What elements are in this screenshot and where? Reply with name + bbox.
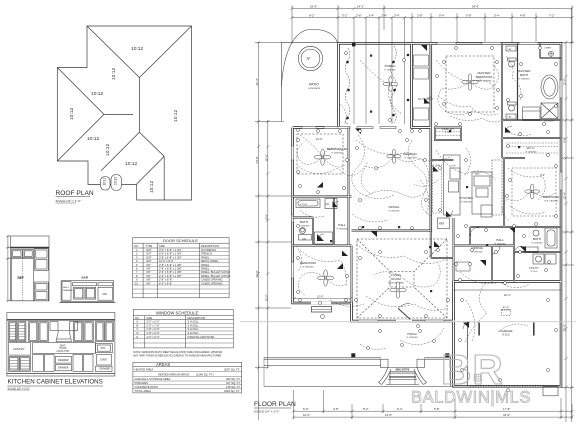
roof valley to porch corner — [101, 132, 139, 170]
svg-text:TOTAL AREA: TOTAL AREA — [135, 389, 151, 393]
svg-text:20'-4": 20'-4" — [563, 324, 567, 331]
svg-text:5'-8": 5'-8" — [466, 14, 472, 18]
kitchen upper cabinets dashed — [433, 165, 442, 213]
svg-text:DRAWER: DRAWER — [58, 366, 69, 369]
svg-text:7'-2": 7'-2" — [549, 14, 555, 18]
svg-text:CONCRETE PATIO: CONCRETE PATIO — [135, 385, 159, 389]
svg-text:10:12: 10:12 — [103, 177, 107, 185]
svg-text:4'-8": 4'-8" — [520, 14, 526, 18]
interior walls — [293, 43, 561, 303]
svg-text:5'-2": 5'-2" — [363, 407, 369, 411]
svg-text:BEDROOM: BEDROOM — [543, 195, 559, 199]
svg-text:2'-4" x 6'-8" x 1 3/8": 2'-4" x 6'-8" x 1 3/8" — [159, 274, 182, 278]
svg-text:KITCHEN CABINET ELEVATIONS: KITCHEN CABINET ELEVATIONS — [8, 379, 103, 386]
svg-text:34'-0": 34'-0" — [472, 5, 479, 9]
svg-text:10:12: 10:12 — [125, 161, 138, 167]
svg-text:2'-8" x 6'-8" x 1 3/4": 2'-8" x 6'-8" x 1 3/4" — [159, 255, 182, 259]
svg-text:HALL: HALL — [496, 238, 504, 242]
svg-text:SIZE: SIZE — [147, 316, 153, 320]
svg-text:GRILL: GRILL — [63, 287, 70, 289]
svg-text:EXT: EXT — [147, 255, 152, 259]
svg-text:FLOOR PLAN: FLOOR PLAN — [254, 401, 296, 408]
svg-text:GARAGE & STORAGE AREA: GARAGE & STORAGE AREA — [135, 377, 171, 381]
svg-text:3'-4": 3'-4" — [394, 14, 400, 18]
svg-text:DESCRIPTION: DESCRIPTION — [201, 244, 219, 248]
garage rear pad — [543, 386, 558, 396]
left pantry column — [9, 343, 31, 356]
svg-text:8'-6": 8'-6" — [264, 214, 268, 220]
svg-text:10:12: 10:12 — [87, 136, 100, 142]
svg-text:2'-8": 2'-8" — [356, 14, 362, 18]
ceiling fan symbols — [314, 74, 539, 298]
garage inner header line — [454, 289, 562, 291]
patio — [282, 29, 339, 121]
svg-text:2'-8" x 6'-0": 2'-8" x 6'-0" — [147, 327, 160, 331]
svg-text:DINING: DINING — [389, 205, 400, 209]
svg-text:REF: REF — [18, 276, 24, 280]
svg-text:TYPE: TYPE — [146, 244, 153, 248]
side stoop strip right of porch — [451, 321, 468, 386]
svg-text:10:12: 10:12 — [131, 46, 144, 52]
svg-text:10:12: 10:12 — [173, 109, 179, 122]
svg-text:NO.: NO. — [134, 244, 139, 248]
svg-text:9' CEILING: 9' CEILING — [472, 251, 483, 253]
svg-text:SHOWER: SHOWER — [544, 121, 554, 123]
svg-text:2'-6" x 6'-8" x 1 3/8": 2'-6" x 6'-8" x 1 3/8" — [159, 267, 182, 271]
svg-text:12'-4": 12'-4" — [563, 192, 567, 199]
svg-text:AREAS: AREAS — [156, 362, 170, 367]
dimension text inside plan — [293, 98, 545, 300]
bottom porch and steps — [264, 358, 454, 387]
svg-text:BRK STEPS: BRK STEPS — [396, 368, 410, 371]
svg-text:BR: BR — [441, 346, 504, 393]
svg-text:DRAWER: DRAWER — [100, 368, 111, 371]
svg-text:9' CEILING: 9' CEILING — [461, 201, 472, 203]
svg-text:26'-4": 26'-4" — [255, 78, 259, 85]
svg-text:TRAY CEILING: TRAY CEILING — [477, 79, 492, 82]
extra wiring squiggles — [296, 64, 555, 349]
svg-text:2'-8" x 6'-8" x 1 3/8": 2'-8" x 6'-8" x 1 3/8" — [159, 263, 182, 267]
svg-text:3'-2": 3'-2" — [342, 14, 348, 18]
windows (slots in walls) — [292, 42, 562, 322]
svg-text:WINDOW SCHEDULE: WINDOW SCHEDULE — [156, 310, 199, 315]
svg-text:2'-8" x 5'-0": 2'-8" x 5'-0" — [147, 331, 160, 335]
svg-text:HALL: HALL — [338, 223, 346, 227]
svg-text:14'-0": 14'-0" — [385, 413, 392, 417]
master bath fixtures — [506, 43, 561, 120]
roof hip right of main block — [139, 26, 191, 78]
svg-text:OVEN: OVEN — [100, 359, 107, 362]
svg-text:SCALE 1/4" = 1'-0": SCALE 1/4" = 1'-0" — [254, 410, 279, 414]
svg-text:7F: 7F — [306, 56, 311, 61]
svg-text:S.H./SILL: S.H./SILL — [188, 323, 200, 327]
svg-text:ACCESS: ACCESS — [502, 308, 512, 311]
svg-text:9' CEILING: 9' CEILING — [389, 210, 400, 212]
svg-text:17'-8": 17'-8" — [503, 407, 510, 411]
svg-text:5'-4": 5'-4" — [439, 14, 445, 18]
svg-text:9' CEILING: 9' CEILING — [532, 242, 543, 244]
svg-text:CONCRETE: CONCRETE — [308, 88, 321, 90]
svg-text:22'-0": 22'-0" — [255, 270, 259, 277]
svg-text:9'-2": 9'-2" — [309, 14, 315, 18]
svg-text:BEDROOM: BEDROOM — [300, 261, 316, 265]
center band — [33, 343, 96, 354]
svg-text:427 SQ. FT.: 427 SQ. FT. — [226, 381, 241, 385]
svg-text:9' CLG: 9' CLG — [531, 271, 538, 273]
svg-text:LAV: LAV — [508, 116, 513, 119]
svg-text:DRAWER: DRAWER — [63, 289, 73, 292]
svg-text:2'-6" x 6'-8" x 1 3/8": 2'-6" x 6'-8" x 1 3/8" — [159, 270, 182, 274]
svg-text:4'-0" x 6'-0": 4'-0" x 6'-0" — [147, 335, 160, 339]
svg-text:PATIO: PATIO — [309, 83, 319, 87]
svg-text:16'-0": 16'-0" — [310, 5, 317, 9]
svg-text:10:12: 10:12 — [69, 107, 75, 120]
svg-text:REF: REF — [439, 222, 445, 226]
svg-text:6'-0" x 6'-8" x 1 3/4": 6'-0" x 6'-8" x 1 3/4" — [159, 252, 182, 256]
svg-text:9' CEILING: 9' CEILING — [303, 266, 314, 268]
svg-text:3/4 FRENCH: 3/4 FRENCH — [201, 248, 216, 252]
svg-text:3'-0" x 6'-8" x 1 3/4": 3'-0" x 6'-8" x 1 3/4" — [159, 248, 182, 252]
outlet/switch symbols — [297, 47, 558, 382]
svg-text:A: A — [137, 320, 139, 324]
utility fixtures — [533, 254, 556, 264]
svg-text:DESCRIPTION: DESCRIPTION — [188, 316, 206, 320]
exterior walls (double-line effect) — [293, 43, 561, 386]
svg-text:EXT: EXT — [147, 259, 152, 263]
tray ceilings dashed — [297, 56, 494, 318]
svg-text:9' CLG: 9' CLG — [502, 334, 510, 337]
attic access dashed — [502, 310, 511, 316]
svg-text:SCALE 1/4" = 1'-0": SCALE 1/4" = 1'-0" — [56, 199, 81, 203]
svg-text:4'-8": 4'-8" — [333, 407, 339, 411]
svg-text:BEDROOM: BEDROOM — [476, 75, 492, 79]
svg-text:HEATED AREA W/ BRICK: HEATED AREA W/ BRICK — [158, 372, 190, 376]
svg-text:24'-8": 24'-8" — [255, 156, 259, 163]
svg-text:3'-4": 3'-4" — [540, 174, 545, 177]
svg-text:3'-4": 3'-4" — [382, 14, 388, 18]
svg-text:INT: INT — [147, 263, 152, 267]
svg-text:METAL PANEL: METAL PANEL — [201, 259, 219, 263]
svg-text:FRENCH: FRENCH — [201, 252, 212, 256]
svg-text:2'-0" x 7'-0": 2'-0" x 7'-0" — [147, 323, 160, 327]
svg-text:484 SQ. FT.: 484 SQ. FT. — [226, 377, 241, 381]
svg-text:ROOF PLAN: ROOF PLAN — [56, 190, 94, 197]
svg-text:S.H./SILL: S.H./SILL — [188, 327, 200, 331]
svg-text:BATH: BATH — [300, 220, 308, 224]
svg-text:PORCHES: PORCHES — [135, 381, 148, 385]
svg-text:DW: DW — [103, 292, 108, 296]
svg-text:INT: INT — [147, 281, 152, 285]
right dimension lines — [561, 9, 574, 423]
svg-text:3418 SQ. FT.: 3418 SQ. FT. — [224, 389, 240, 393]
upper row doors — [9, 322, 17, 342]
roof porch bumps — [101, 175, 122, 191]
roof bay diagonal — [137, 156, 165, 184]
svg-text:9' CEILING: 9' CEILING — [495, 243, 506, 245]
garage center ticks — [479, 323, 534, 336]
watermark BALDWIN|MLS — [411, 389, 531, 407]
svg-text:INT: INT — [147, 274, 152, 278]
svg-text:HEATED AREA: HEATED AREA — [135, 367, 154, 371]
svg-text:10:12: 10:12 — [91, 91, 104, 97]
svg-text:5'-0": 5'-0" — [303, 407, 309, 411]
window note — [133, 351, 222, 357]
wiring squiggles (dashed arcs) — [298, 56, 546, 342]
svg-text:B: B — [137, 323, 139, 327]
svg-text:DRAWER: DRAWER — [58, 359, 69, 362]
bedroom3 tray dashes — [512, 168, 556, 216]
svg-text:NO.: NO. — [135, 316, 140, 320]
svg-text:6'-4": 6'-4" — [397, 407, 403, 411]
svg-text:22'-4": 22'-4" — [504, 294, 510, 297]
svg-text:13'-0": 13'-0" — [563, 78, 567, 85]
svg-text:BALDWIN|MLS: BALDWIN|MLS — [411, 389, 531, 407]
svg-text:9' CEILING: 9' CEILING — [332, 152, 343, 154]
svg-text:9' CEILING: 9' CEILING — [385, 69, 396, 71]
left wing hip top — [57, 68, 104, 115]
door swing triangles — [317, 45, 526, 328]
kitchen counters — [444, 155, 503, 217]
svg-text:CASED OPENING: CASED OPENING — [201, 281, 223, 285]
bedroom4 bay window — [312, 307, 332, 313]
svg-text:15'-0": 15'-0" — [264, 154, 268, 161]
svg-text:DOOR SCHEDULE: DOOR SCHEDULE — [163, 238, 198, 243]
svg-text:9' CLG: 9' CLG — [445, 132, 452, 134]
front door swing — [398, 303, 410, 319]
svg-text:9' CEILING: 9' CEILING — [337, 228, 348, 230]
svg-text:PANEL: PANEL — [201, 263, 210, 267]
svg-text:LAV: LAV — [508, 48, 513, 51]
hall closet cell — [315, 232, 333, 244]
svg-text:C: C — [137, 327, 139, 331]
svg-text:S.H./SILL: S.H./SILL — [188, 331, 200, 335]
scan artifact gray line — [240, 321, 576, 323]
svg-text:S.H./SILL: S.H./SILL — [188, 320, 200, 324]
svg-text:PORCH: PORCH — [385, 64, 396, 68]
svg-text:2'-8" x 6'-8": 2'-8" x 6'-8" — [159, 278, 172, 282]
svg-text:LAV: LAV — [325, 203, 330, 206]
svg-text:LINEN: LINEN — [545, 48, 552, 50]
svg-text:PANEL, BULLET CATCH: PANEL, BULLET CATCH — [201, 274, 230, 278]
roof plan title — [56, 190, 94, 203]
svg-text:14'-2": 14'-2" — [357, 5, 364, 9]
garage door dotted — [470, 385, 558, 387]
kitchen REF box — [438, 218, 450, 229]
svg-text:SINK: SINK — [475, 174, 481, 176]
svg-text:2097 SQ. FT.: 2097 SQ. FT. — [224, 367, 240, 371]
svg-text:PANTRY: PANTRY — [442, 127, 454, 131]
roof outline — [57, 26, 191, 200]
svg-text:ROOM: ROOM — [391, 277, 401, 281]
svg-text:6'-0" x 6'-8": 6'-0" x 6'-8" — [159, 281, 172, 285]
master bedroom niche boxes — [414, 55, 429, 120]
svg-text:5'-8": 5'-8" — [434, 407, 440, 411]
svg-text:W/S: W/S — [101, 347, 106, 350]
office desk — [456, 262, 470, 271]
svg-text:218 SQ. FT.: 218 SQ. FT. — [226, 385, 241, 389]
roof hip left of main block — [87, 26, 139, 78]
svg-text:10:12: 10:12 — [111, 67, 117, 80]
svg-text:13'-2": 13'-2" — [264, 294, 268, 301]
striped glass doors left column — [10, 326, 30, 369]
svg-text:6'-4": 6'-4" — [563, 137, 567, 143]
roof bay vertical — [163, 156, 165, 200]
left wing hip bottom — [57, 114, 104, 161]
svg-text:D: D — [137, 331, 139, 335]
svg-text:10:12: 10:12 — [149, 180, 155, 193]
svg-text:6' TUB: 6' TUB — [300, 204, 307, 206]
svg-text:16'-0" x 8'-0": 16'-0" x 8'-0" — [159, 259, 174, 263]
svg-text:UTILITY: UTILITY — [529, 266, 539, 270]
watermark BR logo — [441, 346, 504, 393]
svg-text:BATH: BATH — [533, 237, 541, 241]
svg-text:LIN: LIN — [318, 237, 322, 239]
svg-text:COOK TOP: COOK TOP — [57, 350, 70, 353]
svg-text:EXT: EXT — [147, 252, 152, 256]
svg-text:FIXED/SILL/FROSTED: FIXED/SILL/FROSTED — [188, 335, 215, 339]
svg-text:10:12: 10:12 — [114, 177, 118, 185]
svg-text:(2148 SQ. FT.): (2148 SQ. FT.) — [196, 372, 214, 376]
svg-text:PANTRY: PANTRY — [14, 347, 25, 351]
bath 3 fixtures — [524, 228, 557, 252]
svg-text:INT: INT — [147, 270, 152, 274]
recessed light squares — [330, 55, 520, 293]
svg-text:PANEL: PANEL — [201, 267, 210, 271]
brick front steps — [379, 359, 427, 384]
roof ridge vertical — [138, 78, 140, 133]
svg-text:12'-0": 12'-0" — [316, 138, 322, 141]
bath 1 fixtures (left bath) — [296, 199, 337, 241]
svg-text:PANEL, BULLET CATCH: PANEL, BULLET CATCH — [201, 270, 230, 274]
lower cabinets — [33, 355, 44, 372]
hall door swing arcs — [317, 97, 522, 329]
left dimension lines — [255, 41, 291, 420]
svg-text:BATH: BATH — [520, 73, 528, 77]
svg-text:E: E — [137, 335, 139, 339]
wic shelves dashed — [506, 143, 558, 153]
svg-text:BAR: BAR — [82, 276, 89, 280]
svg-text:5'-4": 5'-4" — [494, 14, 500, 18]
svg-text:MAY VARY FROM SCHEDULE ACCORDI: MAY VARY FROM SCHEDULE ACCORDING TO WIND… — [133, 354, 222, 357]
right column — [96, 344, 113, 353]
svg-text:LAV: LAV — [302, 238, 307, 241]
top dimension lines — [291, 5, 574, 44]
svg-text:3'-4": 3'-4" — [369, 14, 375, 18]
svg-text:9' CEILING: 9' CEILING — [519, 78, 530, 80]
svg-text:9' CEILING: 9' CEILING — [299, 225, 310, 227]
svg-text:2'-8": 2'-8" — [417, 14, 423, 18]
svg-text:KITCHEN: KITCHEN — [459, 196, 473, 200]
svg-text:EXT: EXT — [147, 248, 152, 252]
bottom dimension lines — [292, 390, 574, 419]
svg-text:10:12: 10:12 — [105, 143, 111, 156]
svg-text:10'-0": 10'-0" — [303, 413, 310, 417]
svg-text:SCALE 1/2" = 1'-0": SCALE 1/2" = 1'-0" — [8, 387, 30, 391]
svg-text:INT: INT — [147, 278, 152, 282]
svg-text:12'-0": 12'-0" — [317, 296, 323, 299]
porch columns — [351, 353, 449, 357]
bedroom2 top wall windows — [302, 127, 338, 129]
svg-text:3'-0" x 6'-0": 3'-0" x 6'-0" — [147, 320, 160, 324]
porch top (columns + screen) — [354, 18, 405, 125]
roof pitch labels — [69, 46, 179, 193]
svg-text:PANEL: PANEL — [201, 255, 210, 259]
svg-text:9' CEILING: 9' CEILING — [407, 337, 418, 339]
svg-text:34'-0": 34'-0" — [503, 413, 510, 417]
svg-text:INT: INT — [147, 267, 152, 271]
svg-text:CASED OPENING: CASED OPENING — [201, 278, 223, 282]
svg-text:PORCH: PORCH — [407, 332, 416, 336]
svg-text:SIZE: SIZE — [159, 244, 165, 248]
left wing ridge — [104, 113, 133, 115]
room labels — [299, 69, 560, 339]
roof hip to bay — [139, 132, 164, 156]
